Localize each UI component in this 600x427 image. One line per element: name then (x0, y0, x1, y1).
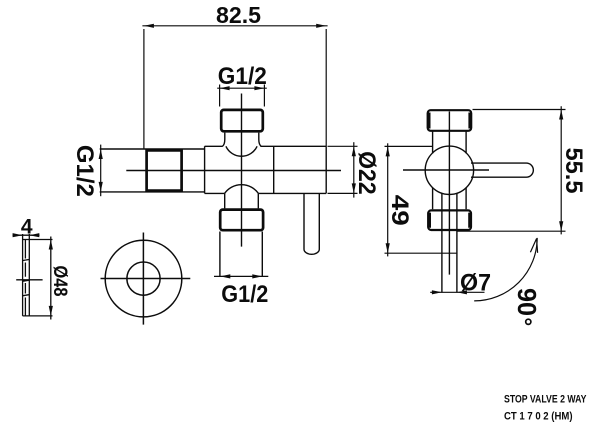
svg-text:4: 4 (21, 216, 33, 239)
handle stem (front view) (304, 193, 319, 254)
side bottom fitting thick edges (429, 213, 470, 228)
side view crosshair horizontal (403, 169, 489, 171)
svg-text:CT 1 7 0 2 (HM): CT 1 7 0 2 (HM) (504, 411, 573, 423)
svg-text:82.5: 82.5 (216, 2, 261, 28)
bottom outlet neck (225, 193, 259, 208)
svg-text:55.5: 55.5 (560, 148, 587, 194)
centerline vertical (outlets) (241, 94, 243, 247)
dimension G1/2 top line (217, 87, 267, 89)
escutcheon plate inner step line (24, 240, 26, 316)
svg-text:Ø7: Ø7 (460, 269, 491, 296)
dimension diam48 arrows (49, 240, 53, 250)
centerline horizontal (front view) (126, 170, 341, 172)
dimension 4 line (13, 234, 40, 236)
side view valve body circle (425, 146, 473, 194)
angle 90 arc arrowhead (530, 239, 537, 253)
dimension G1/2 bottom arrows (220, 274, 230, 278)
dimension diam22 line (353, 142, 355, 197)
bottom outlet seat dome (225, 185, 259, 194)
top outlet threaded fitting G1/2 (thick) (221, 110, 263, 131)
dimension 82.5 line (142, 25, 327, 27)
escutcheon plate centerline (16, 279, 42, 281)
bottom outlet threaded fitting G1/2 (thick) (220, 210, 263, 231)
side view crosshair vertical (448, 112, 450, 275)
dimension diam48 line (50, 237, 52, 320)
dimension G1/2 top extension lines (219, 85, 221, 107)
side top fitting thick edges (429, 113, 471, 129)
dimension G1/2 left line (100, 145, 102, 197)
dimension 82.5 arrows (144, 24, 154, 28)
side column lower (433, 188, 467, 210)
dimension 82.5 extension lines (143, 29, 145, 149)
dimension 4 arrows (13, 233, 23, 237)
dimension 49 line (387, 143, 389, 256)
dimension diam7 arrows (432, 290, 442, 294)
body internal joint line (273, 146, 275, 193)
svg-text:G1/2: G1/2 (218, 63, 267, 90)
valve body outline (205, 146, 327, 193)
top outlet seat dome (226, 146, 257, 156)
dimension 49 extension bottom / pipe end mark (385, 252, 458, 254)
escutcheon inner circle (127, 262, 160, 295)
dimension diam22 arrows (352, 146, 356, 156)
side handle lever (471, 163, 533, 177)
svg-text:90: 90 (512, 288, 542, 316)
angle 90 arc (474, 238, 537, 301)
escutcheon plate top/bottom edges (23, 240, 53, 316)
svg-text:Ø22: Ø22 (353, 151, 380, 195)
escutcheon crosshair (101, 233, 191, 325)
side column upper (433, 131, 467, 154)
top outlet neck (222, 133, 261, 147)
dimension 49 arrows (386, 146, 390, 156)
side bottom fitting (428, 210, 471, 230)
escutcheon outer circle diam48 (105, 240, 182, 317)
wall inlet neck top line (100, 148, 205, 150)
dimension 55.5 extension top (473, 109, 566, 111)
dimension G1/2 top arrows (220, 86, 230, 90)
dimension 55.5 line (560, 106, 562, 234)
escutcheon plate profile (23, 234, 30, 316)
svg-text:G1/2: G1/2 (71, 145, 98, 197)
svg-text:G1/2: G1/2 (221, 281, 268, 308)
wall inlet neck bottom line (100, 191, 205, 193)
svg-text:STOP VALVE 2 WAY: STOP VALVE 2 WAY (504, 394, 587, 406)
dimension diam22 extension lines (328, 145, 358, 147)
dimension 55.5 extension bottom (458, 230, 566, 232)
wall inlet square G1/2 (thick) (147, 150, 182, 190)
svg-text:Ø48: Ø48 (49, 266, 70, 297)
bottom outlet pipe (220, 232, 262, 277)
dimension 55.5 arrows (559, 110, 563, 120)
side top fitting (428, 110, 472, 131)
dimension diam7 line (430, 291, 484, 293)
label degree symbol (526, 319, 531, 324)
escutcheon plate notch marks (23, 260, 29, 296)
dimension G1/2 bottom line (214, 275, 268, 277)
dimension G1/2 left arrows (99, 149, 103, 159)
svg-text:49: 49 (386, 195, 413, 226)
dimension 49 extension top (385, 145, 433, 147)
side outlet pipe diam7 (442, 193, 457, 293)
